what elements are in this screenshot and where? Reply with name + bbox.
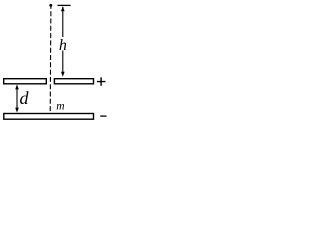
svg-text:m: m bbox=[56, 100, 64, 112]
plate: upper capacitor plate left section bbox=[4, 79, 47, 84]
ball (charged particle) bbox=[49, 4, 52, 7]
wire: dashed fall trajectory line bbox=[49, 7, 52, 113]
node: h arrowhead up bbox=[61, 6, 65, 11]
wire: h dimension line lower segment bbox=[62, 51, 64, 74]
node: d arrowhead down bbox=[15, 108, 19, 113]
wire: h dimension line upper segment bbox=[62, 7, 64, 37]
wire: d dimension line bbox=[16, 87, 18, 110]
svg-text:d: d bbox=[20, 88, 30, 108]
svg-text:h: h bbox=[59, 37, 67, 54]
node: h arrowhead down bbox=[61, 72, 65, 77]
plate: lower capacitor plate bbox=[4, 114, 94, 120]
node: d arrowhead up bbox=[15, 84, 19, 89]
node: plus polarity sign bbox=[97, 77, 106, 85]
node: minus polarity sign bbox=[100, 115, 106, 117]
node: top reference level line bbox=[57, 4, 70, 6]
plate: upper capacitor plate right section bbox=[54, 79, 93, 84]
